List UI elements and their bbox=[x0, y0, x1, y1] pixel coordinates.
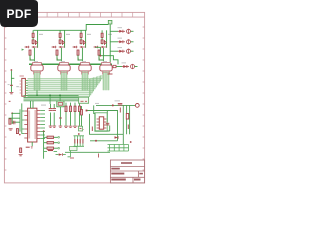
svg-text:PDF: PDF bbox=[7, 7, 32, 21]
